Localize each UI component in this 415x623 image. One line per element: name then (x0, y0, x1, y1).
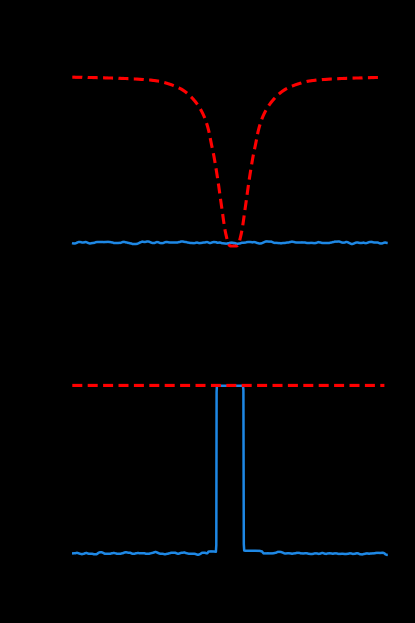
bottom plot: red dashed reference level line (72, 384, 384, 387)
top plot: blue measured noisy baseline trace (72, 241, 388, 244)
bottom plot: blue measured pulse trace (72, 385, 388, 555)
top plot: red dashed theory notch-dip curve (72, 77, 380, 246)
